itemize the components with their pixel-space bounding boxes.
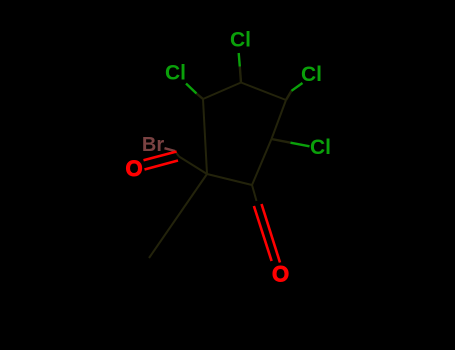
- svg-text:Cl: Cl: [230, 29, 251, 52]
- bond Br to C1 (dark half): [175, 151, 179, 157]
- bond Br to C1 (maroon stub): [165, 148, 176, 151]
- bond V1 to Cl2 (dark half): [197, 94, 204, 100]
- ring bond V2-V3: [241, 83, 286, 101]
- svg-text:O: O: [272, 262, 289, 287]
- ring bond V1-V2: [203, 83, 241, 100]
- bond V5 to acyl carbon C2 (dark): [252, 185, 257, 201]
- ring bond V3-V4: [272, 100, 287, 139]
- bond V4 to Cl4 (green half): [291, 143, 310, 147]
- svg-text:Cl: Cl: [310, 136, 331, 159]
- C1=O1 double bond line 2: [145, 161, 179, 170]
- ring bond V6-V1: [203, 99, 207, 174]
- C2=O2 double bond line 2: [262, 204, 281, 263]
- methyl bond from V6: [149, 174, 207, 258]
- bond V3 to Cl3 (green half): [292, 83, 303, 91]
- ring bond V4-V5: [252, 139, 272, 185]
- C1=O1 double bond line 1: [144, 152, 177, 161]
- bond V6 to acyl carbon C1: [179, 157, 207, 175]
- svg-text:Br: Br: [142, 134, 164, 156]
- bond V4 to Cl4 (dark half): [272, 139, 291, 143]
- bond V2 to Cl1 (dark half): [240, 67, 241, 83]
- svg-text:Cl: Cl: [165, 62, 186, 85]
- ring bond V5-V6: [207, 174, 252, 185]
- bond V2 to Cl1 (green half): [239, 53, 240, 67]
- svg-text:Cl: Cl: [301, 63, 322, 86]
- bond V3 to Cl3 (dark half): [286, 91, 292, 100]
- bond V1 to Cl2 (green half): [186, 84, 197, 94]
- C2=O2 double bond line 1: [254, 206, 272, 261]
- svg-text:O: O: [125, 156, 142, 181]
